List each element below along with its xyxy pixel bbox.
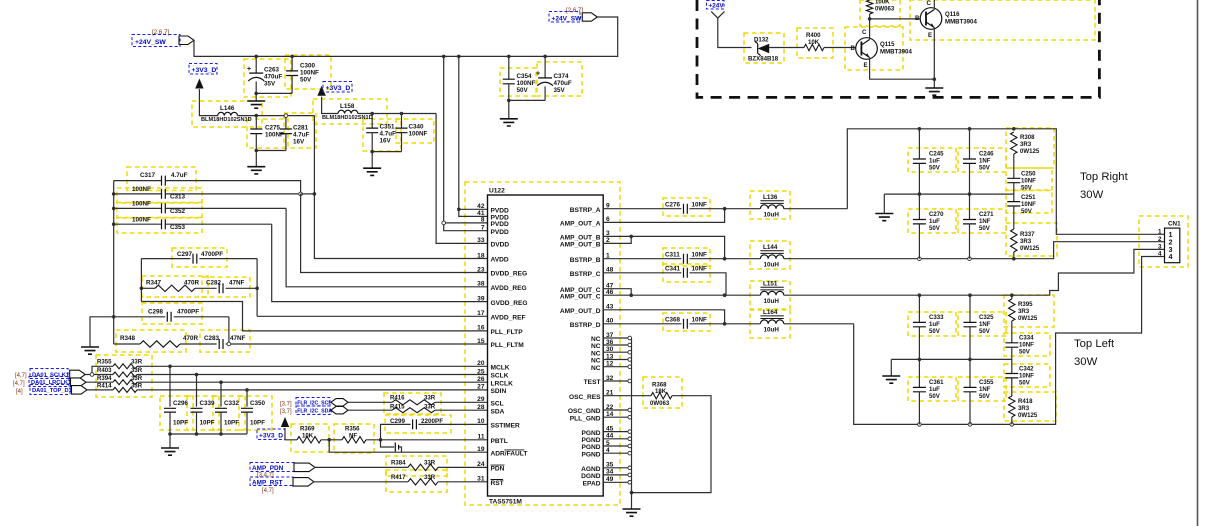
svg-text:AMP_PDN: AMP_PDN — [252, 465, 284, 472]
svg-text:+3V3_D: +3V3_D — [192, 67, 217, 74]
svg-text:C355: C355 — [979, 379, 994, 386]
wire AMP_OUT_C merge — [603, 289, 631, 296]
svg-text:C251: C251 — [1021, 194, 1036, 201]
svg-text:38: 38 — [477, 281, 485, 288]
capacitor C250 — [1007, 154, 1036, 194]
wire pin 8 stub — [444, 222, 488, 224]
wire — [140, 259, 142, 302]
capacitor C368 — [603, 316, 724, 328]
svg-text:C334: C334 — [1019, 335, 1034, 342]
junction (open) — [1010, 423, 1014, 427]
resistor R417 — [391, 474, 438, 485]
svg-text:3R3: 3R3 — [1018, 308, 1030, 315]
wire pin stub — [603, 337, 631, 339]
svg-text:C281: C281 — [293, 125, 309, 132]
svg-text:10NF: 10NF — [1019, 373, 1034, 380]
junction — [195, 432, 199, 436]
wire — [169, 434, 171, 448]
wire — [321, 439, 342, 441]
svg-text:C296: C296 — [173, 400, 189, 407]
power +3V3_D — [281, 417, 289, 427]
inductor L158 — [322, 103, 373, 121]
junction — [723, 207, 727, 211]
svg-text:10NF: 10NF — [1021, 178, 1036, 185]
svg-text:C339: C339 — [200, 400, 216, 407]
resistor R355 — [97, 359, 143, 369]
svg-text:NC: NC — [591, 343, 601, 350]
svg-text:27: 27 — [477, 384, 485, 391]
svg-text:10PF: 10PF — [250, 420, 265, 427]
svg-text:10K: 10K — [302, 432, 314, 439]
svg-text:1NF: 1NF — [979, 218, 991, 225]
svg-text:PVDD: PVDD — [491, 229, 510, 236]
svg-text:0W125: 0W125 — [1020, 245, 1040, 252]
wire mid rail — [884, 193, 1014, 195]
svg-text:C270: C270 — [929, 211, 944, 218]
svg-text:4700PF: 4700PF — [177, 309, 199, 316]
wire to pin 17 AVDD_REF — [257, 315, 487, 317]
svg-text:+24V: +24V — [709, 3, 725, 10]
svg-text:47NF: 47NF — [229, 280, 245, 287]
svg-text:C298: C298 — [148, 309, 164, 316]
junction (open) — [628, 350, 632, 354]
svg-text:[4]: [4] — [16, 389, 23, 395]
capacitor C317 — [114, 172, 301, 194]
svg-text:B: B — [915, 15, 920, 22]
junction — [723, 257, 727, 261]
capacitor C313 — [114, 186, 301, 201]
junction — [457, 208, 461, 212]
svg-text:29: 29 — [477, 396, 485, 403]
net label +24V_SW — [132, 35, 180, 47]
svg-text:PVDD: PVDD — [491, 208, 510, 215]
svg-text:+24V_SW: +24V_SW — [135, 39, 166, 46]
svg-text:AMP_OUT_A: AMP_OUT_A — [560, 221, 601, 228]
capacitor C246 — [963, 129, 994, 194]
resistor R400 — [804, 32, 824, 51]
wire pin stub — [603, 366, 631, 368]
capacitor C340 — [396, 114, 428, 152]
svg-text:NC: NC — [591, 365, 601, 372]
wire +3V3 rail A — [238, 115, 315, 117]
svg-text:LRCLK: LRCLK — [491, 380, 514, 387]
resistor R356 — [342, 426, 366, 444]
svg-text:25: 25 — [477, 368, 485, 375]
svg-text:R400: R400 — [806, 32, 821, 39]
junction — [379, 438, 383, 442]
net label +3V3_D — [257, 429, 285, 440]
svg-text:DVDD_REG: DVDD_REG — [491, 271, 528, 278]
svg-text:10NF: 10NF — [692, 251, 708, 258]
wire — [255, 93, 257, 101]
svg-text:4.7uF: 4.7uF — [293, 132, 310, 139]
junction — [112, 192, 116, 196]
svg-text:U122: U122 — [489, 188, 505, 195]
wire AMP_OUT_B — [603, 236, 724, 258]
svg-text:AGND: AGND — [581, 466, 601, 473]
capacitor C296 — [164, 366, 189, 434]
capacitor C276 — [603, 201, 724, 213]
svg-text:33R: 33R — [424, 474, 436, 481]
capacitor C351 — [366, 114, 396, 152]
wire — [371, 152, 373, 169]
svg-text:NC: NC — [591, 358, 601, 365]
wire SCLK row to pin 25 — [137, 374, 488, 376]
junction — [918, 192, 922, 196]
capacitor C311 — [603, 251, 724, 263]
resistor R369 — [297, 426, 321, 444]
wire — [228, 317, 230, 344]
svg-text:Top Right: Top Right — [1080, 171, 1129, 183]
capacitor C283 — [204, 335, 488, 349]
wire DVDD feed pin 33 — [436, 114, 487, 244]
svg-text:33R: 33R — [131, 367, 143, 374]
wire SDA — [348, 409, 392, 411]
svg-text:C374: C374 — [554, 73, 570, 80]
svg-text:33R: 33R — [131, 359, 143, 366]
svg-text:NF: NF — [349, 432, 357, 439]
svg-text:C341: C341 — [665, 265, 681, 272]
svg-text:OSC_GND: OSC_GND — [568, 408, 601, 415]
svg-text:100NF: 100NF — [132, 216, 151, 223]
svg-text:MCLK: MCLK — [491, 365, 510, 372]
resistor R418 — [1009, 396, 1038, 424]
wire pin stub — [603, 431, 631, 433]
svg-text:20: 20 — [477, 360, 485, 367]
svg-text:C282: C282 — [206, 280, 222, 287]
junction — [507, 55, 511, 59]
svg-text:35V: 35V — [264, 81, 276, 88]
svg-text:+: + — [247, 66, 251, 73]
inductor L144 — [725, 244, 920, 269]
resistor R308 — [1011, 132, 1040, 155]
svg-text:33R: 33R — [131, 383, 143, 390]
svg-text:33R: 33R — [131, 375, 143, 382]
svg-text:B: B — [851, 45, 856, 52]
net label +24V — [707, 1, 725, 10]
svg-text:10K: 10K — [808, 39, 820, 46]
svg-text:FLR_I2C_SDA: FLR_I2C_SDA — [297, 409, 332, 415]
wire pin stub — [603, 351, 631, 353]
svg-text:R414: R414 — [97, 383, 112, 390]
svg-text:R417: R417 — [391, 474, 406, 481]
svg-text:1NF: 1NF — [979, 386, 991, 393]
svg-text:16V: 16V — [293, 139, 305, 146]
resistor R394 — [97, 375, 143, 385]
svg-text:470uF: 470uF — [264, 74, 282, 81]
svg-text:[3,7]: [3,7] — [280, 401, 292, 407]
capacitor C299 — [381, 418, 488, 440]
svg-text:NC: NC — [591, 336, 601, 343]
svg-text:PBTL: PBTL — [491, 438, 508, 445]
junction — [507, 99, 511, 103]
wire pin 42 stub — [459, 208, 488, 210]
wire channel B rail — [919, 242, 1164, 259]
wire — [256, 92, 292, 94]
wire +24V_SW rail — [194, 17, 618, 56]
svg-text:C275: C275 — [265, 125, 281, 132]
junction (open) — [628, 430, 632, 434]
net flag FLR_I2C_SCL — [280, 398, 348, 408]
inductor L151 — [725, 280, 920, 305]
ground — [363, 168, 381, 175]
svg-text:SDIN: SDIN — [491, 388, 507, 395]
capacitor C281 — [280, 116, 310, 151]
svg-text:1uF: 1uF — [929, 218, 940, 225]
svg-text:100NF: 100NF — [265, 132, 284, 139]
svg-text:26: 26 — [477, 376, 485, 383]
capacitor C339 — [191, 375, 216, 435]
wire AMP_OUT_A — [603, 209, 724, 223]
svg-text:0W063: 0W063 — [650, 400, 670, 407]
svg-text:3R3: 3R3 — [1020, 238, 1032, 245]
svg-text:AVDD_REF: AVDD_REF — [491, 315, 526, 322]
capacitor C353 — [114, 216, 272, 231]
svg-text:50V: 50V — [979, 225, 991, 232]
wire Q115 collector — [869, 19, 871, 40]
svg-text:C332: C332 — [224, 400, 240, 407]
svg-text:PDN: PDN — [491, 466, 505, 473]
svg-text:[4,7]: [4,7] — [15, 373, 27, 379]
wire — [255, 151, 257, 167]
junction — [245, 388, 249, 392]
svg-text:PGND: PGND — [581, 430, 600, 437]
svg-text:8: 8 — [481, 217, 485, 224]
wire to pin 19 ADR/FAULT — [329, 440, 487, 452]
junction — [400, 112, 404, 116]
svg-text:3R3: 3R3 — [1018, 405, 1030, 412]
resistor R415 — [390, 404, 436, 413]
wire ground tap — [90, 317, 114, 347]
svg-text:10NF: 10NF — [692, 316, 708, 323]
svg-text:CN1: CN1 — [1168, 221, 1181, 228]
wire to pin 39 GVDD_REG — [272, 224, 488, 301]
svg-text:4.7uF: 4.7uF — [380, 131, 397, 138]
svg-text:4: 4 — [1158, 251, 1162, 258]
svg-text:3R3: 3R3 — [1020, 141, 1032, 148]
svg-text:DGND: DGND — [581, 473, 601, 480]
junction (open) — [628, 473, 632, 477]
power +3V3_D — [195, 79, 203, 89]
junction — [1012, 127, 1016, 131]
svg-text:100NF: 100NF — [132, 186, 151, 193]
wire cap ground rail — [170, 433, 247, 435]
wire to pin 16 PLL_FLTP — [141, 302, 487, 331]
svg-text:+: + — [536, 71, 540, 78]
svg-text:D132: D132 — [754, 37, 769, 44]
junction — [629, 235, 633, 239]
inductor L164 — [725, 309, 854, 334]
junction — [968, 293, 972, 297]
ground — [882, 376, 900, 383]
svg-text:50V: 50V — [300, 77, 312, 84]
capacitor C350 — [241, 390, 266, 434]
capacitor C354 — [503, 56, 536, 100]
svg-text:AMP_OUT_B: AMP_OUT_B — [560, 242, 601, 249]
svg-text:50V: 50V — [1021, 185, 1033, 192]
svg-text:R395: R395 — [1018, 301, 1033, 308]
wire pin stub — [603, 380, 631, 382]
junction — [255, 287, 259, 291]
capacitor C297 — [141, 251, 257, 264]
svg-text:PLL_GND: PLL_GND — [570, 415, 601, 422]
junction — [723, 293, 727, 297]
capacitor C300 — [286, 56, 319, 93]
svg-text:C: C — [927, 0, 932, 7]
junction — [968, 127, 972, 131]
svg-text:C250: C250 — [1021, 171, 1036, 178]
svg-text:C: C — [862, 29, 867, 36]
svg-text:BSTRP_A: BSTRP_A — [570, 207, 601, 214]
junction (open) — [628, 408, 632, 412]
ground — [247, 101, 265, 108]
svg-text:470R: 470R — [184, 280, 200, 287]
label Top Left 30W — [1074, 338, 1115, 368]
net flag +24V_SW (left) — [179, 36, 194, 45]
svg-text:E: E — [864, 62, 868, 69]
svg-text:GVDD_REG: GVDD_REG — [491, 300, 528, 307]
junction (open) — [628, 365, 632, 369]
svg-text:4.7uF: 4.7uF — [171, 172, 188, 179]
junction — [370, 112, 374, 116]
svg-text:18: 18 — [477, 252, 485, 259]
junction (open) — [628, 343, 632, 347]
svg-text:100NF: 100NF — [132, 201, 151, 208]
svg-text:AVDD: AVDD — [491, 257, 509, 264]
svg-text:C311: C311 — [665, 251, 680, 258]
svg-text:BSTRP_C: BSTRP_C — [570, 271, 601, 278]
ground — [623, 509, 641, 516]
junction — [630, 491, 634, 495]
ground — [875, 214, 893, 221]
svg-text:BSTRP_D: BSTRP_D — [570, 322, 601, 329]
transistor Q116 — [915, 0, 977, 39]
svg-text:R308: R308 — [1020, 134, 1035, 141]
svg-text:L136: L136 — [763, 194, 778, 201]
svg-text:L158: L158 — [340, 103, 355, 110]
svg-text:C350: C350 — [250, 400, 266, 407]
junction (open) — [968, 423, 972, 427]
svg-text:SDA: SDA — [491, 408, 505, 415]
net flag +24V_SW (top) — [582, 13, 597, 21]
ground — [925, 88, 943, 95]
svg-text:[2,6,7]: [2,6,7] — [566, 7, 583, 14]
wire left ground bus — [113, 181, 115, 344]
svg-text:1NF: 1NF — [979, 321, 991, 328]
wire Q115 emitter — [870, 58, 935, 80]
wire — [285, 428, 297, 440]
junction (open) — [628, 437, 632, 441]
junction — [254, 92, 258, 96]
svg-text:24: 24 — [477, 461, 485, 468]
svg-text:16V: 16V — [380, 138, 392, 145]
resistor R347 — [141, 280, 216, 292]
svg-text:10uH: 10uH — [764, 212, 780, 219]
svg-text:4: 4 — [1169, 252, 1173, 261]
wire to pin 31 — [438, 481, 488, 483]
svg-text:DA01_LRCLK1: DA01_LRCLK1 — [31, 380, 71, 386]
junction — [168, 432, 172, 436]
svg-text:10: 10 — [477, 418, 485, 425]
svg-text:PLL_FLTP: PLL_FLTP — [491, 329, 524, 336]
junction — [254, 114, 258, 118]
junction (open) — [628, 415, 632, 419]
wire SCLK input — [85, 374, 113, 376]
svg-text:11: 11 — [478, 434, 485, 441]
svg-text:1: 1 — [1158, 229, 1162, 236]
svg-text:10NF: 10NF — [1021, 201, 1036, 208]
resistor R337 — [1011, 229, 1040, 259]
svg-text:30W: 30W — [1074, 356, 1098, 368]
svg-text:47NF: 47NF — [230, 335, 246, 342]
capacitor C245 — [913, 129, 944, 194]
junction — [112, 315, 116, 319]
svg-text:R403: R403 — [97, 367, 112, 374]
svg-text:42: 42 — [477, 203, 485, 210]
wire channel D rail — [854, 257, 1165, 425]
svg-text:MMBT3904: MMBT3904 — [880, 49, 912, 56]
svg-text:R348: R348 — [120, 335, 136, 342]
svg-text:AMP_OUT_D: AMP_OUT_D — [560, 308, 601, 315]
resistor R368 — [650, 382, 672, 407]
svg-text:R418: R418 — [1018, 398, 1033, 405]
wire Q116 collector — [933, 0, 935, 10]
net label +24V_SW — [549, 12, 582, 23]
wire input SDIN — [87, 389, 113, 391]
svg-text:PGND: PGND — [581, 437, 600, 444]
svg-text:50V: 50V — [979, 328, 991, 335]
junction — [1012, 257, 1016, 261]
svg-text:C263: C263 — [264, 67, 280, 74]
svg-text:1uF: 1uF — [929, 158, 940, 165]
svg-text:C283: C283 — [204, 335, 220, 342]
svg-text:SCL: SCL — [491, 401, 504, 408]
svg-text:+3V3_D: +3V3_D — [326, 85, 351, 92]
junction — [442, 55, 446, 59]
svg-text:16: 16 — [477, 325, 485, 332]
resistor R384 — [391, 460, 438, 471]
svg-text:BLM18HD102SN1D: BLM18HD102SN1D — [322, 115, 373, 121]
connector CN1 — [1158, 221, 1181, 263]
svg-text:C276: C276 — [665, 201, 681, 208]
svg-text:AVDD_REG: AVDD_REG — [491, 285, 527, 292]
svg-text:[3,7]: [3,7] — [280, 409, 292, 415]
junction — [140, 287, 144, 291]
capacitor (NF) at PBTL — [381, 440, 402, 452]
junction (open) — [628, 358, 632, 362]
svg-text:DVDD: DVDD — [491, 242, 510, 249]
svg-text:L164: L164 — [763, 309, 778, 316]
wire AMP_OUT_B merge — [603, 236, 631, 243]
wire AMP_OUT_D — [603, 310, 724, 324]
svg-text:PVDD: PVDD — [491, 221, 510, 228]
wire — [199, 89, 217, 116]
svg-text:50V: 50V — [929, 328, 941, 335]
svg-text:19: 19 — [477, 446, 485, 453]
svg-text:PLL_FLTM: PLL_FLTM — [491, 342, 525, 349]
junction — [543, 55, 547, 59]
svg-text:+3V3_D: +3V3_D — [259, 433, 283, 440]
resistor R403 — [97, 367, 143, 377]
net label +3V3_D — [189, 64, 217, 75]
junction — [723, 322, 727, 326]
svg-text:[4,7]: [4,7] — [13, 381, 25, 387]
svg-text:50V: 50V — [979, 393, 991, 400]
junction (open) — [918, 257, 922, 261]
junction — [327, 438, 331, 442]
svg-text:50V: 50V — [979, 165, 991, 172]
svg-text:BZX84B18: BZX84B18 — [748, 56, 779, 63]
